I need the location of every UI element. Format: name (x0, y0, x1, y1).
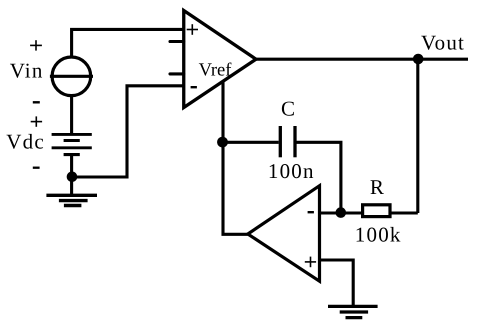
voltage source Vin (50, 57, 93, 96)
op-amp U2 (integrator, output on left) (248, 186, 320, 282)
svg-text:Vref: Vref (199, 60, 233, 80)
wire from resistor R right lead to Vout branch (390, 211, 418, 214)
wire from capacitor C right plate to node D (295, 142, 341, 213)
svg-text:Vout: Vout (421, 31, 465, 55)
wire from U1 output to Vout terminal (256, 58, 468, 61)
junction node A (Vdc minus / ground) (67, 172, 78, 183)
capacitor C (280, 126, 295, 157)
svg-text:Vin: Vin (10, 59, 44, 83)
U1 unused pin stub (upper) (170, 40, 184, 43)
junction node D (U2 inverting input) (336, 207, 347, 218)
svg-text:100k: 100k (355, 222, 402, 246)
junction node B (U2 output / U1 Vref) (217, 137, 228, 148)
svg-text:R: R (370, 175, 384, 199)
svg-text:100n: 100n (268, 159, 315, 183)
wire from node B to capacitor C left plate (223, 141, 279, 144)
polarity mark + (Vin positive) (30, 40, 42, 50)
wire from U2 noninverting input to ground (right) (320, 260, 354, 306)
U2 + input mark (305, 257, 316, 268)
U1 - input mark (191, 86, 197, 88)
U1 unused pin stub (lower) (170, 72, 184, 75)
U2 - input mark (308, 211, 314, 213)
ground (right, below U2) (328, 306, 378, 317)
wire from Vdc battery bottom through node A to ground (70, 155, 73, 196)
wire from node A to U1 inverting input (72, 86, 184, 177)
polarity mark - (Vdc negative) (33, 167, 40, 169)
U1 + input mark (187, 24, 198, 35)
svg-text:C: C (281, 96, 295, 120)
resistor R (363, 205, 390, 217)
wire from node D to resistor R left lead (341, 211, 363, 214)
battery Vdc (52, 134, 92, 154)
ground (left, below Vdc) (46, 195, 97, 205)
wire from Vin top to U1 noninverting input (72, 29, 184, 57)
wire from U2 inverting input to node D (320, 211, 341, 214)
polarity mark - (Vin negative) (33, 101, 40, 103)
wire from Vout node down to resistor R (416, 59, 419, 213)
wire from Vin bottom to Vdc battery top (70, 95, 73, 135)
wire from U1 Vref pin down to U2 output (223, 81, 248, 234)
junction node Vout (413, 54, 424, 65)
op-amp U1 (main amplifier with Vref pin) (184, 11, 256, 108)
polarity mark + (Vdc positive) (31, 116, 42, 126)
svg-text:Vdc: Vdc (6, 130, 45, 154)
